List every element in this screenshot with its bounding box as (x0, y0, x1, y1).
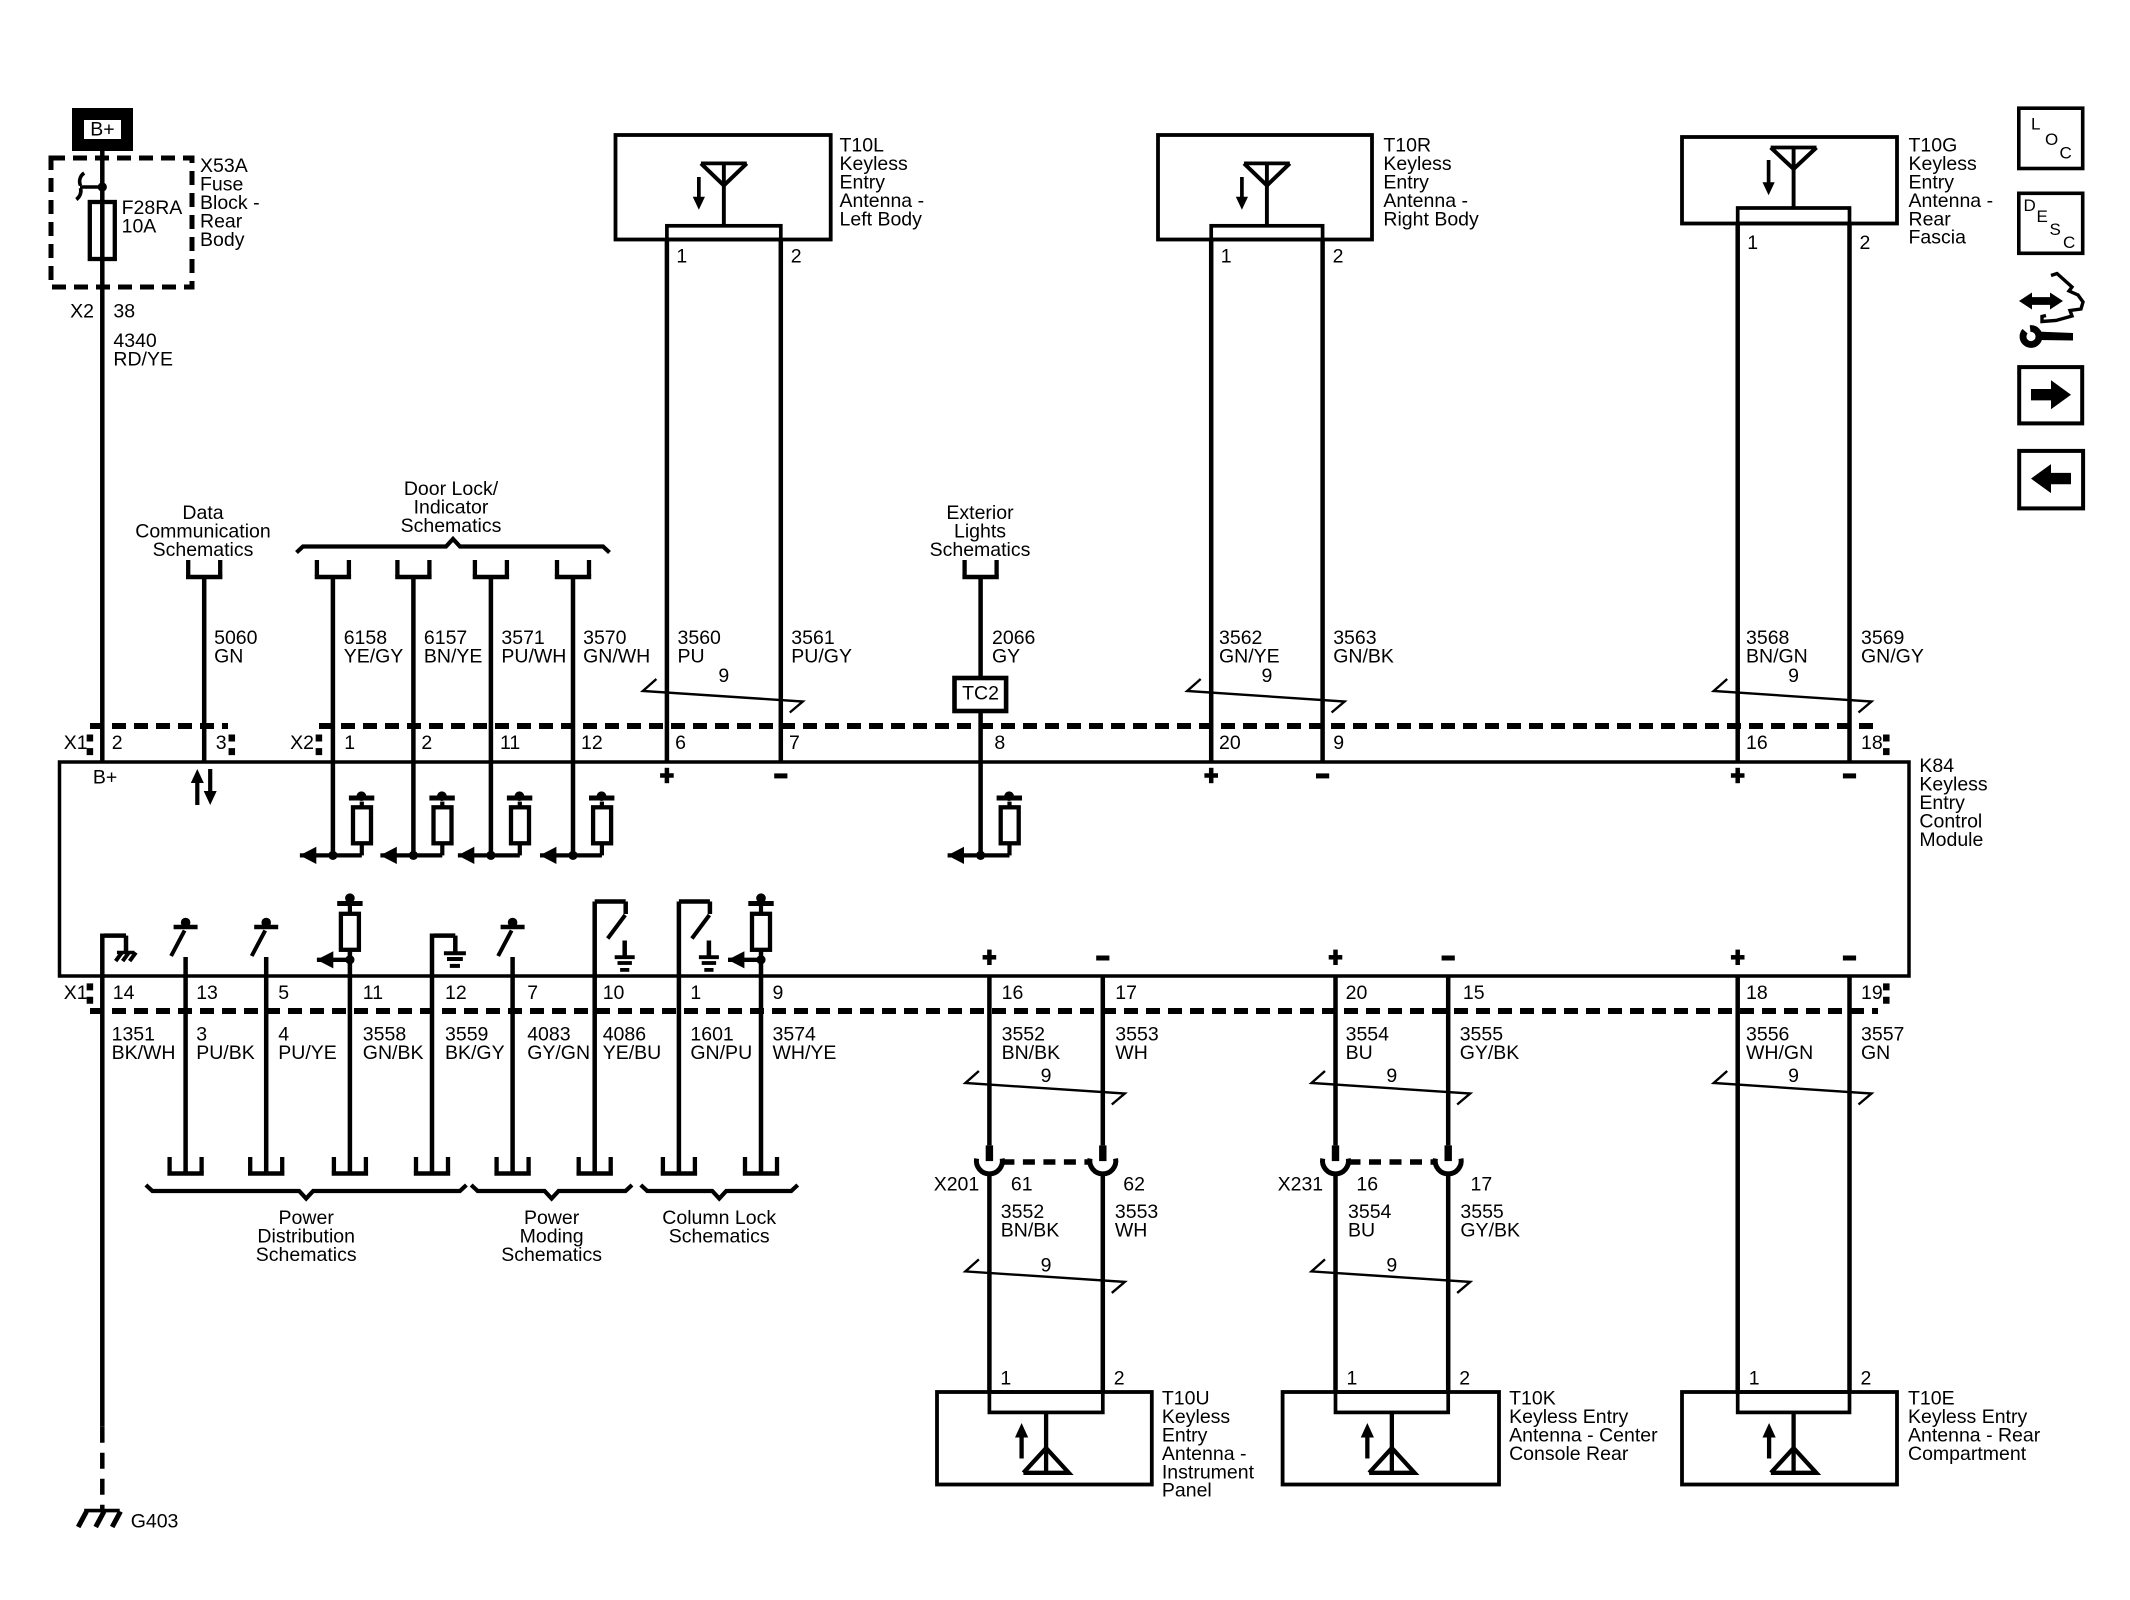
svg-text:18: 18 (1746, 982, 1768, 1004)
svg-text:WH: WH (1115, 1042, 1148, 1064)
svg-text:GY/GN: GY/GN (527, 1042, 590, 1064)
svg-text:7: 7 (527, 982, 538, 1004)
svg-text:E: E (2037, 207, 2048, 226)
svg-text:RD/YE: RD/YE (113, 349, 173, 371)
svg-text:1: 1 (1347, 1368, 1358, 1390)
svg-text:L: L (2031, 114, 2040, 133)
svg-text:PU: PU (678, 646, 705, 668)
svg-text:BK/GY: BK/GY (445, 1042, 505, 1064)
svg-text:GY: GY (992, 646, 1020, 668)
svg-text:20: 20 (1346, 982, 1368, 1004)
svg-text:BN/BK: BN/BK (1001, 1220, 1060, 1242)
svg-text:WH/GN: WH/GN (1746, 1042, 1813, 1064)
svg-text:PU/GY: PU/GY (791, 646, 852, 668)
svg-text:B+: B+ (93, 767, 117, 789)
svg-text:Schematics: Schematics (930, 539, 1031, 561)
svg-text:7: 7 (789, 732, 800, 754)
svg-text:17: 17 (1471, 1174, 1493, 1196)
svg-text:Left Body: Left Body (840, 208, 923, 230)
svg-text:C: C (2063, 233, 2075, 252)
svg-text:Schematics: Schematics (669, 1226, 770, 1248)
svg-text:12: 12 (445, 982, 467, 1004)
svg-text:X1: X1 (64, 732, 88, 754)
svg-text:17: 17 (1115, 982, 1137, 1004)
svg-text:Schematics: Schematics (153, 539, 254, 561)
svg-text:12: 12 (581, 732, 603, 754)
svg-text:16: 16 (1002, 982, 1024, 1004)
svg-text:1: 1 (1749, 1368, 1760, 1390)
svg-text:PU/YE: PU/YE (278, 1042, 337, 1064)
svg-text:GY/BK: GY/BK (1460, 1220, 1520, 1242)
svg-text:YE/GY: YE/GY (344, 646, 404, 668)
svg-text:PU/WH: PU/WH (501, 646, 566, 668)
svg-text:B+: B+ (90, 119, 114, 141)
svg-text:9: 9 (1261, 665, 1272, 687)
svg-text:6: 6 (675, 732, 686, 754)
svg-text:2: 2 (791, 246, 802, 268)
svg-text:X201: X201 (934, 1174, 980, 1196)
svg-text:Body: Body (200, 229, 245, 251)
svg-text:2: 2 (1861, 1368, 1872, 1390)
svg-text:X1: X1 (64, 982, 88, 1004)
svg-text:8: 8 (994, 732, 1005, 754)
svg-text:BU: BU (1346, 1042, 1373, 1064)
svg-text:2: 2 (1333, 246, 1344, 268)
svg-text:9: 9 (1386, 1255, 1397, 1277)
svg-text:2: 2 (1459, 1368, 1470, 1390)
svg-text:GN/BK: GN/BK (363, 1042, 424, 1064)
svg-text:X231: X231 (1278, 1174, 1324, 1196)
svg-text:9: 9 (1041, 1065, 1052, 1087)
svg-text:16: 16 (1746, 732, 1768, 754)
svg-text:BN/YE: BN/YE (424, 646, 483, 668)
svg-text:Schematics: Schematics (501, 1244, 602, 1266)
svg-text:9: 9 (1041, 1255, 1052, 1277)
svg-text:WH/YE: WH/YE (773, 1042, 837, 1064)
svg-text:C: C (2060, 143, 2072, 162)
svg-text:Module: Module (1919, 829, 1983, 851)
svg-text:1: 1 (344, 732, 355, 754)
svg-text:62: 62 (1123, 1174, 1145, 1196)
svg-text:2: 2 (1114, 1368, 1125, 1390)
svg-text:1: 1 (1747, 232, 1758, 254)
svg-text:GN: GN (214, 646, 243, 668)
svg-text:1: 1 (676, 246, 687, 268)
svg-text:9: 9 (1788, 665, 1799, 687)
svg-text:5: 5 (278, 982, 289, 1004)
svg-text:S: S (2050, 220, 2061, 239)
svg-text:9: 9 (1386, 1065, 1397, 1087)
svg-text:GY/BK: GY/BK (1460, 1042, 1520, 1064)
svg-text:19: 19 (1861, 982, 1883, 1004)
svg-text:Schematics: Schematics (401, 515, 502, 537)
svg-text:BK/WH: BK/WH (112, 1042, 176, 1064)
svg-text:61: 61 (1011, 1174, 1033, 1196)
svg-text:Fascia: Fascia (1909, 227, 1967, 249)
svg-text:9: 9 (718, 665, 729, 687)
svg-text:GN/GY: GN/GY (1861, 646, 1924, 668)
svg-text:BU: BU (1348, 1220, 1375, 1242)
svg-text:X2: X2 (290, 732, 314, 754)
svg-text:WH: WH (1115, 1220, 1148, 1242)
svg-text:BN/BK: BN/BK (1002, 1042, 1061, 1064)
svg-text:13: 13 (196, 982, 218, 1004)
svg-text:16: 16 (1356, 1174, 1378, 1196)
svg-text:Schematics: Schematics (256, 1244, 357, 1266)
svg-text:20: 20 (1219, 732, 1241, 754)
svg-text:14: 14 (113, 982, 135, 1004)
svg-text:GN/PU: GN/PU (690, 1042, 752, 1064)
svg-text:10: 10 (603, 982, 625, 1004)
svg-text:10A: 10A (122, 216, 157, 238)
svg-text:GN/BK: GN/BK (1333, 646, 1394, 668)
svg-text:PU/BK: PU/BK (196, 1042, 255, 1064)
svg-text:1: 1 (1000, 1368, 1011, 1390)
svg-text:Panel: Panel (1162, 1480, 1212, 1502)
svg-text:O: O (2045, 130, 2058, 149)
svg-text:18: 18 (1861, 732, 1883, 754)
svg-text:15: 15 (1463, 982, 1485, 1004)
svg-text:9: 9 (1788, 1065, 1799, 1087)
svg-text:1: 1 (1221, 246, 1232, 268)
svg-text:9: 9 (773, 982, 784, 1004)
svg-text:TC2: TC2 (962, 683, 999, 705)
svg-text:11: 11 (500, 732, 520, 754)
svg-text:11: 11 (363, 982, 383, 1004)
svg-text:GN: GN (1861, 1042, 1890, 1064)
svg-text:1: 1 (690, 982, 701, 1004)
svg-text:Right Body: Right Body (1383, 208, 1479, 230)
svg-text:GN/WH: GN/WH (583, 646, 650, 668)
svg-text:YE/BU: YE/BU (603, 1042, 662, 1064)
svg-text:G403: G403 (131, 1511, 179, 1533)
svg-text:Compartment: Compartment (1908, 1443, 2027, 1465)
svg-text:2: 2 (421, 732, 432, 754)
svg-text:9: 9 (1333, 732, 1344, 754)
svg-text:2: 2 (112, 732, 123, 754)
svg-text:D: D (2024, 196, 2036, 215)
svg-text:Console Rear: Console Rear (1509, 1443, 1629, 1465)
svg-text:X2: X2 (70, 301, 94, 323)
svg-text:38: 38 (113, 301, 135, 323)
svg-text:3: 3 (216, 732, 227, 754)
svg-text:2: 2 (1860, 232, 1871, 254)
